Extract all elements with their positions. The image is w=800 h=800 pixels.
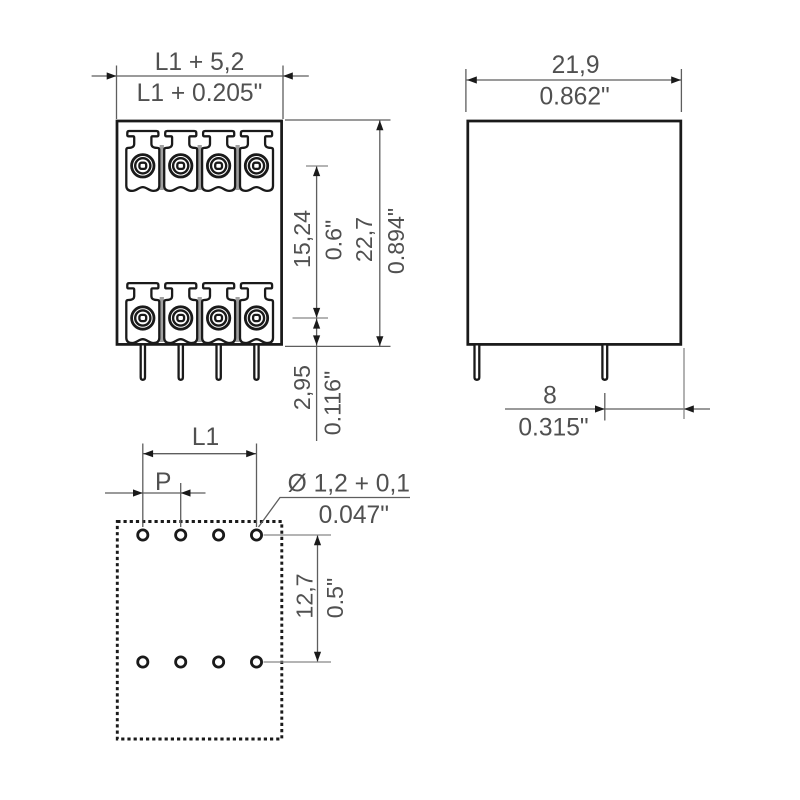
drill hole 1, bottom row (138, 657, 148, 667)
side view: connector body (468, 121, 681, 344)
svg-text:0.047": 0.047" (319, 502, 389, 529)
svg-text:15,24: 15,24 (289, 210, 315, 268)
drill hole 2, bottom row (176, 657, 186, 667)
svg-text:21,9: 21,9 (552, 52, 600, 79)
drill hole 4, top row (251, 530, 261, 540)
terminal pole 1, top row (126, 131, 159, 191)
dimension 2,95 / 0.116 inch (316, 318, 318, 441)
terminal pole 2, bottom row (164, 283, 197, 343)
svg-text:Ø 1,2 + 0,1: Ø 1,2 + 0,1 (288, 471, 410, 498)
svg-text:0.116": 0.116" (319, 371, 345, 436)
terminal pole 4, top row (240, 131, 273, 191)
dimension 8 / 0.315 inch (505, 408, 710, 410)
dimension 12,7 / 0.5 inch (317, 535, 319, 662)
solder pin left, side view (475, 346, 480, 380)
dimension L1 footprint (143, 453, 257, 455)
terminal pole 4, bottom row (240, 283, 273, 343)
terminal pole 3, bottom row (202, 283, 235, 343)
svg-text:0.315": 0.315" (518, 414, 588, 441)
solder pin 1 front view (141, 346, 145, 380)
solder pin 4 front view (254, 346, 258, 380)
dimension 15,24 / 0.6 inch (316, 166, 318, 318)
footprint: dashed outline (117, 522, 281, 740)
svg-text:2,95: 2,95 (289, 365, 315, 410)
drill hole 3, bottom row (214, 657, 224, 667)
svg-text:12,7: 12,7 (291, 573, 317, 618)
terminal pole 3, top row (202, 131, 235, 191)
leader: hole diameter (259, 498, 411, 528)
solder pin 2 front view (179, 346, 183, 380)
drill hole 3, top row (214, 530, 224, 540)
svg-text:0.894": 0.894" (383, 208, 409, 274)
svg-text:L1 + 0.205": L1 + 0.205" (137, 80, 263, 107)
solder pin right, side view (602, 346, 607, 380)
drill hole 2, top row (176, 530, 186, 540)
svg-text:L1: L1 (192, 424, 219, 451)
front view: connector body (117, 121, 282, 344)
terminal pole 2, top row (164, 131, 197, 191)
dimension 22,7 / 0.894 inch (285, 119, 391, 121)
svg-text:0.5": 0.5" (322, 578, 348, 618)
svg-text:0.862": 0.862" (539, 83, 609, 110)
svg-text:L1 + 5,2: L1 + 5,2 (155, 49, 245, 76)
drill hole 1, top row (138, 530, 148, 540)
dimension L1+5,2 top (92, 75, 309, 77)
terminal pole 1, bottom row (126, 283, 159, 343)
svg-text:P: P (155, 469, 171, 496)
gray dividers between poles (160, 145, 164, 190)
drill hole 4, bottom row (251, 657, 261, 667)
svg-text:0.6": 0.6" (320, 220, 346, 260)
solder pin 3 front view (217, 346, 221, 380)
svg-text:8: 8 (543, 383, 557, 410)
svg-text:22,7: 22,7 (351, 217, 377, 262)
dimension P pitch (105, 492, 206, 494)
dimension 21,9 / 0.862 inch (467, 79, 682, 81)
